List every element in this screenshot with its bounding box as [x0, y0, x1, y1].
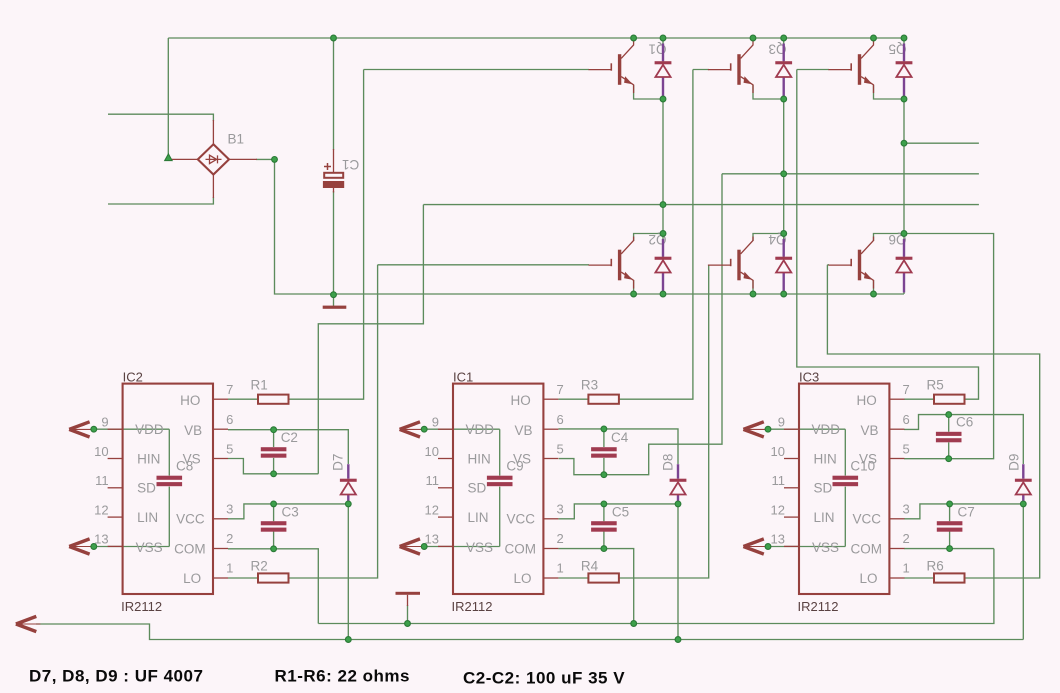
resistor R2 [258, 573, 289, 582]
resistor R3 [588, 395, 619, 404]
wire AC input bottom [108, 197, 213, 204]
capacitor C1 (polarized) [323, 149, 344, 193]
svg-text:D8: D8 [661, 454, 676, 471]
junction dots IC1 cluster [601, 426, 681, 642]
wire Q3 emitter link [753, 85, 784, 99]
transistor Q6 [828, 237, 873, 289]
supply arrow IC1 VSS [400, 539, 425, 554]
svg-text:D7, D8, D9 : UF 4007: D7, D8, D9 : UF 4007 [29, 667, 203, 686]
svg-text:R1: R1 [251, 378, 268, 393]
resistor R6 [934, 573, 965, 582]
ground symbol near IC1 [396, 592, 421, 606]
capacitor C2 [261, 447, 287, 458]
svg-text:C10: C10 [850, 459, 875, 474]
junction dots IC2 cluster [271, 427, 411, 643]
wire COM bus [318, 549, 994, 624]
svg-text:IC3: IC3 [799, 370, 819, 385]
svg-text:B1: B1 [228, 132, 245, 147]
wire IC3 pin7 to R5 [904, 398, 934, 400]
resistor R1 [258, 395, 289, 404]
wire Q4 collector link [753, 234, 784, 242]
wire Q4 emitter drop [752, 280, 754, 294]
junction IC3 VSS [765, 544, 771, 550]
svg-text:R4: R4 [581, 559, 599, 574]
wire IC1 VB to D8 [558, 429, 678, 464]
junction IC3 VDD [765, 426, 771, 432]
wire IC2 VCC [228, 504, 348, 519]
wire IC1 VDD [424, 428, 500, 430]
wire Q3 diode column [783, 38, 785, 294]
wire phase A to IC2 VS [318, 205, 423, 474]
wire Q3 gate [693, 69, 709, 71]
wire AC input top [108, 114, 213, 121]
junction dots top rail [331, 35, 907, 41]
svg-text:R6: R6 [927, 559, 944, 574]
diode of Q4 [775, 239, 792, 293]
wire Q6 emitter drop [873, 280, 875, 294]
svg-text:C2-C2: 100 uF 35 V: C2-C2: 100 uF 35 V [463, 669, 625, 688]
wire IC3 C10 link [844, 429, 846, 546]
junction dots IC3 cluster [946, 412, 1026, 552]
wire Q1 diode column [662, 38, 664, 294]
op-amp driver IC3 (IR2112) [771, 382, 910, 614]
diode of Q2 [655, 239, 672, 293]
diode D9 [1015, 464, 1032, 504]
svg-text:D9: D9 [1006, 454, 1021, 471]
wire R4 to Q4 gate riser [619, 265, 709, 578]
wire R2 to Q2 gate riser [289, 265, 378, 578]
wire IC2 pin7 to R1 [228, 398, 258, 400]
capacitor C7 [937, 521, 963, 532]
wire D7 anode to VCC bus [347, 504, 349, 640]
capacitor C8 [157, 476, 183, 487]
svg-text:C6: C6 [956, 415, 973, 430]
wire phase B output stub [722, 173, 979, 175]
wire Q1 emitter link [634, 85, 663, 99]
wire C4 leads [603, 429, 605, 475]
capacitor C6 [936, 432, 962, 443]
wire C7 leads [949, 504, 951, 549]
svg-text:IC2: IC2 [123, 370, 143, 385]
supply arrow IC2 VSS [69, 539, 94, 554]
wire R1 to Q1 gate riser [289, 70, 364, 400]
supply arrow VCC bottom left [16, 616, 41, 631]
supply arrow IC3 VSS [743, 539, 768, 554]
junction IC2 VDD [91, 426, 97, 432]
wire IC3 VCC [904, 504, 1023, 519]
wire D8 anode to VCC bus [677, 504, 679, 640]
transistor Q2 [589, 237, 634, 289]
wire Q2 collector link [634, 234, 663, 242]
wire C1 bottom lead [333, 191, 335, 306]
capacitor C4 [591, 447, 617, 458]
svg-text:C9: C9 [506, 459, 523, 474]
wire D9 anode to VCC bus [1022, 504, 1024, 640]
wire IC2 VSS [94, 546, 170, 548]
svg-text:R5: R5 [927, 378, 944, 393]
wire B1 plus to bus [256, 159, 904, 294]
ground symbol near C1 [323, 306, 347, 309]
bridge rectifier B1 [170, 120, 258, 198]
resistor R4 [588, 573, 619, 582]
wire phase A output stub [423, 204, 979, 206]
wire IC3 COM [904, 548, 994, 550]
wire Q6 collector link [874, 234, 905, 242]
wire rail left drop to B1 [167, 38, 169, 156]
wire IC2 VB to D7 [228, 430, 348, 464]
svg-text:R1-R6: 22 ohms: R1-R6: 22 ohms [275, 667, 410, 686]
wire phase C to IC3 VS [904, 234, 994, 459]
wire IC1 VSS [424, 546, 500, 548]
transistor Q4 [708, 237, 753, 289]
wire IC2 VDD [94, 428, 170, 430]
wire IC2 COM [228, 549, 318, 624]
wire IC2 VS jog [228, 459, 318, 474]
wire Q5 emitter link [874, 85, 905, 99]
diode of Q6 [896, 239, 913, 293]
diode D7 [340, 464, 357, 504]
supply arrow IC1 VDD [400, 422, 425, 437]
svg-text:C8: C8 [176, 459, 193, 474]
wire IC3 VB to D9 [904, 415, 1023, 464]
svg-text:C4: C4 [611, 430, 629, 445]
op-amp driver IC2 (IR2112) [94, 382, 233, 614]
wire gnd2 stem [407, 605, 409, 624]
capacitor C3 [261, 521, 287, 532]
wire Q2 emitter drop [633, 280, 635, 294]
svg-text:IC1: IC1 [453, 370, 473, 385]
wire IC3 VDD [768, 428, 845, 430]
svg-text:C7: C7 [958, 504, 975, 519]
svg-text:C2: C2 [281, 430, 298, 445]
transistor Q1 [589, 41, 634, 93]
wire C6 leads [948, 415, 950, 459]
wire VCC bus [36, 624, 1023, 640]
wire IC2 pin1 to R2 [228, 577, 258, 579]
junction IC1 VDD [421, 426, 427, 432]
op-amp driver IC1 (IR2112) [425, 382, 564, 614]
wire IC1 pin7 to R3 [558, 398, 588, 400]
svg-text:C1: C1 [342, 157, 359, 172]
wire IC3 VSS [768, 546, 845, 548]
wire +DC top rail [168, 37, 904, 39]
transistor Q5 [828, 41, 873, 93]
junction dots negative bus [331, 291, 877, 298]
diode of Q3 [775, 44, 792, 98]
wire phase B to IC1 VS [559, 174, 722, 475]
node junction B1 left [165, 154, 172, 161]
supply arrow IC2 VDD [69, 422, 94, 437]
capacitor C10 [833, 476, 859, 487]
wire R6 to Q6 gate path [827, 265, 1039, 578]
wire C5 leads [603, 504, 605, 549]
wire IC3 pin1 to R6 [904, 577, 934, 579]
junction dots phase taps [660, 140, 907, 207]
capacitor C9 [487, 476, 513, 487]
svg-text:C3: C3 [282, 504, 299, 519]
wire R3 to Q3 gate riser [619, 70, 693, 400]
junction dots lower collectors [660, 231, 907, 237]
wire C1 top lead [333, 38, 335, 150]
svg-text:D7: D7 [331, 454, 346, 471]
wire IC1 COM [558, 549, 633, 624]
wire IC2 C8 link [168, 429, 170, 546]
wire IC1 C9 link [499, 429, 501, 546]
diode D8 [670, 464, 687, 504]
wire Q1 gate [364, 69, 589, 71]
transistor Q3 [708, 41, 753, 93]
wire IC1 pin1 to R4 [558, 577, 588, 579]
junction IC1 VSS [421, 544, 427, 550]
diode of Q5 [896, 44, 913, 98]
wire C3 leads [273, 504, 275, 549]
wire IC1 VCC [558, 504, 678, 519]
supply arrow IC3 VDD [743, 422, 768, 437]
wire Q6 gate [827, 264, 829, 266]
wire R5 to Q5 gate path [797, 70, 979, 400]
diode of Q1 [655, 44, 672, 98]
capacitor C5 [591, 521, 617, 532]
wire Q5 diode column [903, 38, 905, 294]
svg-text:R2: R2 [251, 559, 268, 574]
svg-text:R3: R3 [581, 378, 598, 393]
wire Q5 gate [797, 69, 829, 71]
junction B1 right [272, 157, 278, 163]
wire Q2 gate [378, 264, 589, 266]
wire C2 leads [273, 430, 275, 474]
svg-text:C5: C5 [612, 504, 629, 519]
junction dots emitter nodes [660, 96, 907, 102]
junction IC2 VSS [91, 544, 97, 550]
wire phase C output stub [904, 142, 979, 144]
resistor R5 [934, 395, 965, 404]
